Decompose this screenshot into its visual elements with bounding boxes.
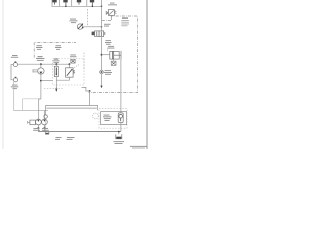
dashed pilot riser (83, 53, 85, 71)
junction manifold corner (101, 6, 103, 8)
filter/check capsule (118, 113, 123, 123)
pilot dashes above cylinder (107, 49, 109, 52)
light routing box left (23, 99, 41, 111)
hand pump BC13 (77, 23, 83, 29)
dash-dot boundary upper-left (34, 42, 76, 57)
small tank symbol left (45, 132, 48, 135)
pump P1 (36, 119, 42, 125)
label RV1 (53, 59, 60, 64)
reservoir top double line (46, 106, 98, 115)
junction (101, 26, 103, 28)
motor coupling (33, 69, 38, 72)
pilot solenoid box (71, 59, 75, 63)
junction on manifold port (65, 6, 67, 8)
label BC11 (108, 46, 115, 49)
wire RV1 drain (55, 77, 57, 89)
check valve with pilot (BC10) (106, 10, 116, 16)
label MV1 (105, 40, 112, 45)
bottom small labels (55, 137, 75, 140)
wire branch to cylinder (102, 54, 111, 56)
junction pump drains (38, 127, 40, 129)
wire to unloader valve (68, 64, 70, 68)
arrowhead (100, 86, 102, 89)
breather (dashed circle) (93, 113, 99, 119)
label pilot solenoid (70, 55, 77, 58)
label PS2 (11, 85, 18, 90)
junction RV1 tap (55, 63, 57, 65)
test point gauge QD1 (13, 61, 17, 66)
label BC10 (108, 3, 117, 6)
wire main riser upper (101, 6, 103, 31)
wire pump suction down (40, 74, 42, 99)
legend MV13 (121, 18, 129, 27)
wire pump to main (40, 64, 42, 68)
wire drain branch to RV1 block (41, 80, 53, 82)
wire PS2 down (14, 82, 48, 111)
wire BC10 stem (110, 15, 112, 20)
junction branch to cylinder (101, 54, 103, 56)
dash-dot system boundary right (89, 16, 138, 93)
junction drain branch (40, 80, 42, 82)
tank T1 stem (118, 132, 120, 135)
solenoid valve SV2 (63, 0, 67, 6)
wire unloader drain elbow (56, 77, 69, 80)
quick disconnect QD2 (100, 70, 104, 74)
junction step (89, 90, 91, 92)
suction strainer circle (44, 115, 47, 118)
wire capsule to tank line (120, 123, 122, 132)
electric motor M1 (28, 120, 36, 125)
RV2 block (101, 112, 127, 125)
label QD2/BC12 (104, 70, 112, 75)
label tank (114, 141, 125, 144)
junction on manifold port (92, 6, 94, 8)
test point gauge PS2 (13, 77, 17, 82)
tank T1 (116, 134, 122, 139)
left test point circle QD1 label (11, 55, 18, 58)
RV2 dashed enclosure (99, 109, 127, 129)
RV1 dashed enclosure (53, 59, 84, 86)
unloader valve (66, 68, 75, 77)
drain plug under cylinder (111, 59, 116, 65)
wire pump drains (38, 125, 44, 132)
label MP1 (36, 56, 45, 61)
step wire to reservoir (82, 87, 90, 91)
main tank return line (38, 131, 121, 133)
label BC13 manual pump (70, 19, 78, 24)
wire pump line jog to motor (39, 99, 41, 119)
junction unloader tap (69, 63, 71, 65)
pump P2 (42, 119, 48, 125)
wire step down (89, 91, 91, 105)
wire main riser lower (101, 37, 103, 71)
wire cylinder return riser (120, 60, 122, 113)
junction pump tee (40, 63, 42, 65)
wire QD1 loop to QD2 (11, 65, 13, 80)
solenoid valve SV4 (90, 0, 94, 6)
right page border (146, 0, 148, 149)
wire to reservoir with arrow (101, 74, 103, 86)
wire QD1 to main line (18, 63, 70, 65)
boundary labels (36, 45, 62, 50)
label right of pump line (104, 24, 111, 27)
wire reservoir to pump2 (43, 111, 45, 120)
junction tank (118, 131, 120, 133)
pump MP1 (38, 68, 44, 74)
directional valve MV1 (92, 31, 106, 37)
dashed pilot line (74, 64, 79, 67)
title block text bottom right (130, 145, 147, 148)
pilot line (dashed) to hand pump (87, 9, 89, 26)
arrow tick (55, 90, 57, 92)
dashed drain header (44, 88, 64, 90)
solenoid valve SV3 (77, 0, 81, 5)
label RV2 (103, 115, 112, 121)
cylinder BC11 (110, 51, 121, 60)
left page border (2, 0, 4, 149)
labels under pumps (33, 128, 49, 131)
relief valve RV1 (54, 64, 58, 76)
junction RV1 drain (55, 88, 57, 90)
solenoid valve SV1 (52, 0, 56, 5)
wire pump outlet (83, 26, 102, 28)
manifold block (top, cropped) (52, 0, 102, 6)
